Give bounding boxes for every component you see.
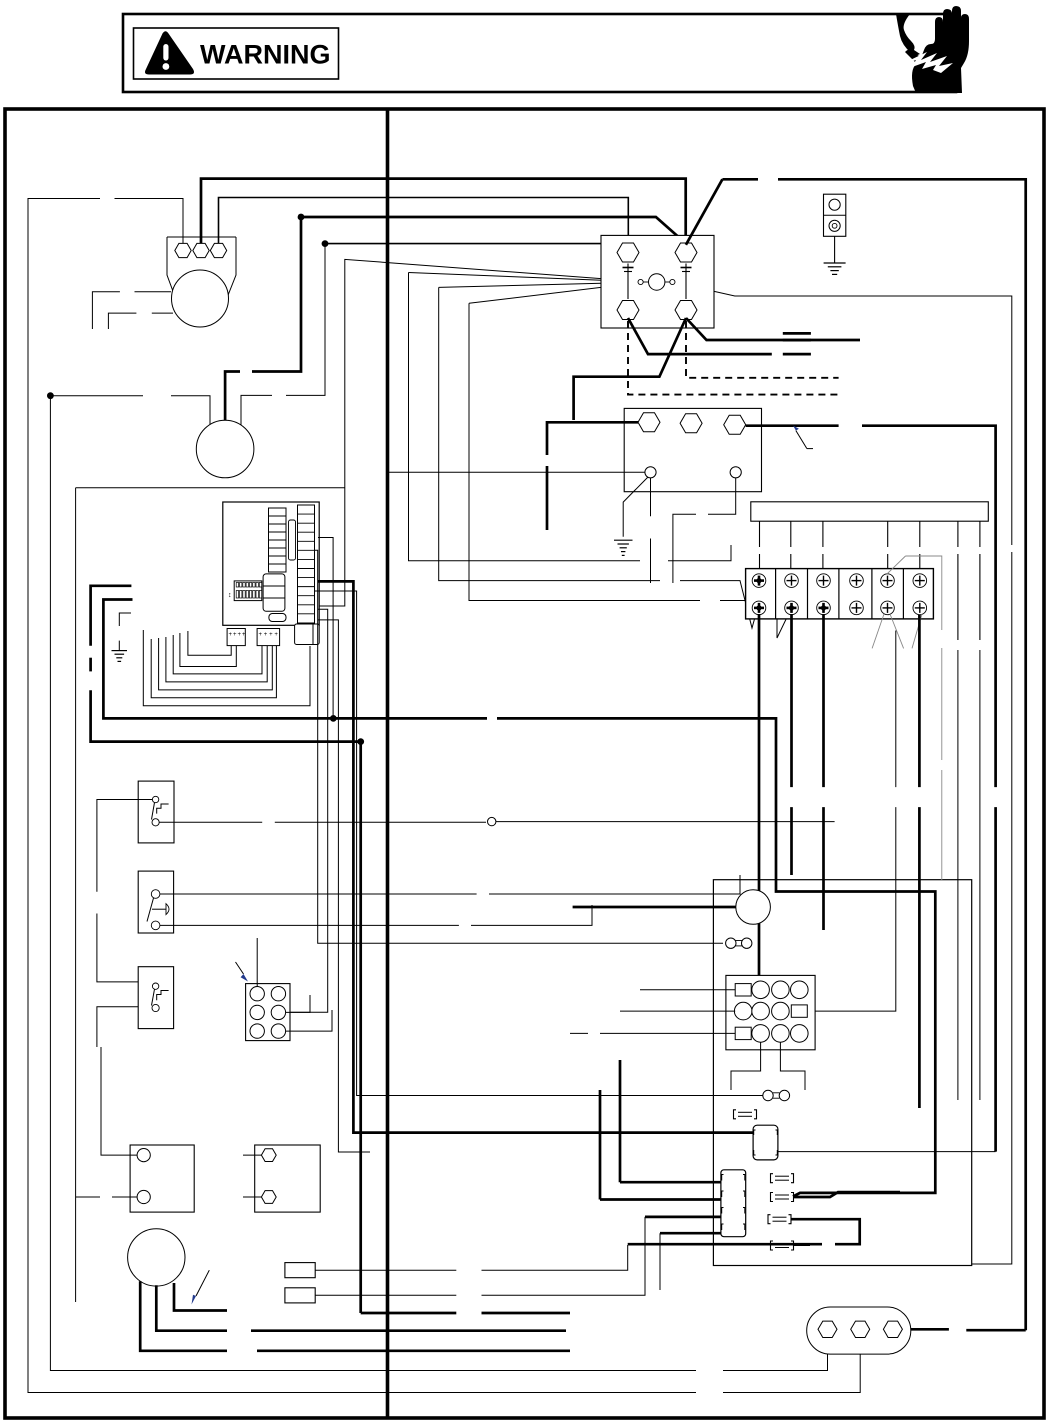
plug pair D [771, 1193, 794, 1202]
inline connector bowtie2 [763, 1090, 790, 1100]
relay K1 terminals [137, 1149, 150, 1204]
warning banner frame [123, 14, 956, 92]
contactor BR wire right segment [783, 333, 811, 340]
svg-text:+: + [229, 632, 233, 638]
molex connector box [726, 975, 815, 1049]
wire splice to defrost sensor [496, 821, 835, 823]
wire strip col5 down to molex [815, 631, 896, 1012]
terminal strip label bar [751, 502, 989, 521]
contactor BL dashed wire [628, 321, 839, 395]
molex wire bottom 2 [780, 1042, 805, 1090]
wire plugF right [794, 1245, 811, 1247]
terminal strip screws top [752, 574, 926, 588]
thick feed wire top right [686, 179, 1026, 1330]
wire dot1 right to contactor hexTR diagonal [301, 217, 686, 244]
wire compressor-left to bottom pill hex2 [28, 199, 860, 1393]
pill hex 2 [851, 1321, 870, 1337]
contactor hex TR [675, 243, 697, 262]
connector P1 pins [250, 987, 286, 1039]
warning label box [134, 28, 339, 79]
wire S2 bottom right [160, 905, 592, 925]
wire pcb right 581 [318, 581, 753, 1132]
pin header 4x [721, 1170, 746, 1237]
defrost thermostat S2 box [138, 871, 173, 933]
TB circle L [645, 467, 656, 478]
warning triangle icon [145, 31, 194, 74]
plug pair A [734, 1110, 757, 1119]
pill hex 1 [818, 1321, 837, 1337]
contactor BR thick V wire [574, 318, 860, 420]
control board pin ladder A [269, 508, 287, 572]
contactor coil circle [638, 274, 675, 290]
plug box B [753, 1125, 778, 1160]
svg-text:WARNING: WARNING [200, 40, 331, 70]
svg-text:+: + [264, 632, 268, 638]
contactor hex TL [617, 243, 639, 262]
svg-text:+: + [274, 632, 278, 638]
thick bus x360 down [361, 742, 570, 1313]
TB hex 1 [638, 413, 660, 432]
control board connector J1 [227, 629, 246, 646]
svg-text:+: + [269, 632, 273, 638]
thick feeds into header from left [600, 1060, 660, 1290]
bottom motor lead 1 [140, 1281, 570, 1351]
wire strip col2 down [790, 614, 793, 875]
connector P1 box [246, 984, 290, 1041]
relay K2 terminal hex bottom [261, 1191, 276, 1204]
control board lower right block [295, 624, 320, 645]
fan motor lead left long [143, 630, 310, 706]
TB leader arrow [793, 426, 813, 449]
node dot on y741 bus [357, 738, 364, 745]
splice circle on S1 wire [488, 817, 496, 825]
terminal strip box [746, 569, 934, 619]
defrost thermostat S2 contacts [147, 890, 169, 930]
wire P1 row2 right [286, 995, 310, 1012]
wire node dot at 50,396 [47, 392, 54, 399]
wire coil-fan3 [439, 282, 757, 628]
warning text [200, 40, 331, 70]
terminal block TB box [624, 408, 761, 491]
wire left vertical x75 [75, 488, 77, 1302]
compressor terminal hex C [175, 243, 191, 257]
thick wire header p1 [620, 1181, 721, 1184]
wire plugB right [778, 1151, 996, 1153]
wire pcb-left boundary [76, 487, 345, 489]
wire plugE right [628, 1219, 860, 1244]
contactor contact right [681, 264, 692, 300]
thick wire header p3 [645, 1216, 721, 1219]
relay K2 box [255, 1145, 321, 1212]
contactor contact left [623, 264, 634, 300]
wire TB circleL ground [614, 477, 648, 555]
wire coil-fan4 [469, 283, 790, 638]
wire dot50 to fan left lead [50, 396, 210, 426]
wire compressor-right to contactor hexTL [219, 198, 629, 251]
control board relay block [263, 574, 285, 611]
thick wire to defrost relay [573, 906, 736, 909]
wire strip col3 down [822, 614, 825, 930]
TB circle R [730, 467, 741, 478]
control board outline [223, 502, 319, 625]
relay K2 terminal hex top [261, 1149, 276, 1162]
plug pair C [771, 1174, 794, 1183]
wire compressor-mid thick to contactor hexTR [201, 179, 686, 250]
wire pcb right 619 [318, 620, 370, 1152]
compressor unused lead lower [108, 313, 173, 329]
pressure switch S3 contacts [152, 983, 169, 1012]
svg-text:↕: ↕ [228, 592, 232, 599]
contactor BL thick wire [628, 318, 811, 354]
molex wire row1 left [640, 989, 735, 991]
fan motor circle [196, 420, 254, 478]
pressure switch S3 box [138, 967, 173, 1029]
control board capacitor [269, 614, 286, 622]
connector P1 leader arrow [236, 962, 249, 982]
wire TB hex3 right [746, 426, 996, 1152]
thick wire motor outer elbow [91, 586, 361, 742]
wire dot2 down to fan right lead [241, 244, 325, 428]
plug terminal R2 [285, 1288, 315, 1303]
wire TB circleL down [650, 478, 652, 583]
relay K1 box [130, 1145, 194, 1212]
bottom motor lead 3 [174, 1283, 227, 1311]
TB hex 2 [680, 414, 702, 433]
contactor CC box [601, 235, 714, 328]
node dot1 at 301,217 [298, 214, 305, 221]
control board connector J2 [257, 629, 280, 646]
wire dot50 to pill hex1 [50, 396, 827, 1371]
contactor hex BL [617, 301, 639, 320]
compressor COMP body [167, 237, 236, 327]
thick bus y718 to defrost box [333, 718, 935, 1196]
wire coil-fan2 [409, 273, 732, 561]
svg-text:+: + [242, 632, 246, 638]
svg-text:+: + [238, 632, 242, 638]
compressor terminal hex R [210, 243, 226, 257]
fan motor ground symbol [112, 613, 132, 661]
compressor terminal hex S [193, 243, 209, 257]
wire TB circleR down [673, 478, 736, 583]
molex connector pins [734, 981, 808, 1042]
wire S3 bottom from below [97, 1007, 138, 1047]
wire coil-fan1 from pcb right [318, 259, 640, 606]
molex wire row3 left [570, 1032, 735, 1034]
contactor hex BR [675, 301, 697, 320]
wire P1 row3 right [286, 1010, 332, 1031]
terminal strip screws bottom [752, 601, 926, 615]
wire pcb to bowtie1 [315, 550, 723, 943]
terminal strip leaders [872, 556, 942, 760]
thick wire header p4 [660, 1232, 721, 1235]
wire TB circleL left [388, 471, 645, 473]
panel divider line [386, 109, 390, 1418]
inline connector bowtie1 [726, 938, 752, 948]
TB hex 3 [724, 415, 746, 434]
electric shock hand icon [896, 6, 969, 93]
wire dot1 down to fan middle lead [225, 217, 301, 425]
control board dip switch [228, 581, 262, 601]
control board mid connector [289, 520, 296, 560]
wire S1 top to S3 top [97, 800, 152, 982]
bottom motor lead 2 [156, 1285, 566, 1330]
wire plugD right [794, 1192, 901, 1197]
wire R1 right [315, 1245, 628, 1270]
wire K2 top [243, 1154, 261, 1156]
molex wire bottom 1 [731, 1042, 761, 1090]
wire strip col1 down [758, 614, 761, 990]
node dot on y718 bus [330, 715, 337, 722]
wire S1 bottom right [159, 821, 486, 823]
thick wire motor to y718 bus [103, 600, 333, 719]
bottom motor leader arrow [192, 1270, 210, 1304]
temp sensor ground [824, 236, 846, 274]
label bar stub wires [760, 521, 980, 640]
plug pair F [771, 1241, 794, 1250]
wire dot2 right to contactor hexTL [325, 243, 628, 245]
wire pcb right 609 [247, 609, 328, 1012]
wire K1 bottom [76, 1196, 138, 1198]
outdoor fan motor circle bottom [128, 1229, 185, 1286]
wire pcb right 591 [315, 591, 763, 1096]
plug pair E [768, 1215, 791, 1224]
molex wire row2 left [620, 1010, 735, 1012]
pill connector [807, 1307, 911, 1354]
svg-text:+: + [259, 632, 263, 638]
wire pcb to bus x333 [318, 538, 333, 716]
wire S2 top right [160, 875, 740, 894]
pressure switch S1 contacts [152, 796, 169, 826]
wire R2 right [315, 1268, 645, 1295]
wire K1 top [101, 1047, 137, 1155]
contactor BR dashed wire [686, 321, 839, 378]
temp sensor box [824, 194, 846, 236]
wire strip col6 down [918, 615, 921, 1108]
plug terminal R1 [285, 1263, 315, 1278]
control board pin ladder B [298, 505, 315, 623]
svg-text:+: + [233, 632, 237, 638]
thick wire header p2 [600, 1198, 721, 1201]
low voltage box outline [713, 880, 971, 1266]
misc right-half long verticals [942, 650, 980, 1100]
thick feed to pill hex3 [908, 1328, 1026, 1332]
fan motor lead harness to board [151, 631, 276, 698]
wire P1 top [256, 938, 258, 987]
pressure switch S1 box [138, 781, 174, 843]
node dot2 at 325,243.6 [322, 240, 329, 247]
wire coil-right leader [672, 282, 1011, 1264]
wire TB hex1 left [547, 422, 638, 530]
wire K2 bottom [243, 1196, 261, 1198]
pill hex 3 [883, 1321, 902, 1337]
defrost relay circle [736, 890, 771, 925]
compressor unused lead upper [92, 292, 171, 329]
